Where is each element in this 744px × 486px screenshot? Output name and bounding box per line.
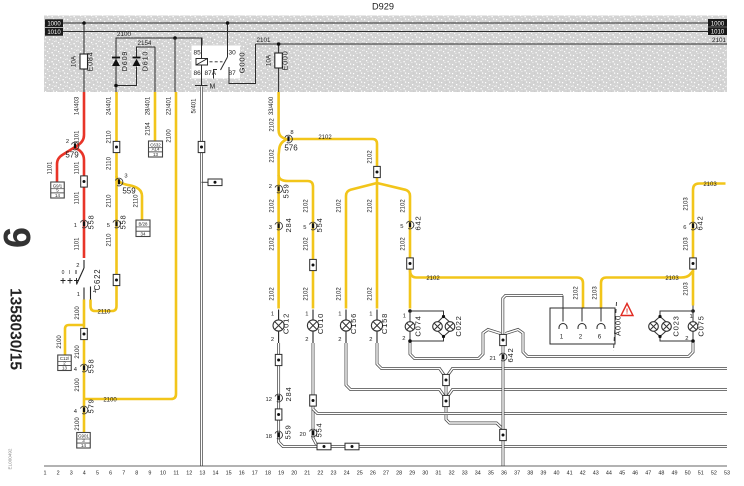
svg-text:2100: 2100	[117, 31, 132, 38]
splice 284 pin 3	[275, 222, 282, 230]
ruler baseline	[44, 465, 727, 467]
wire 642 ground drop	[502, 346, 505, 429]
svg-text:2102: 2102	[269, 199, 275, 213]
wire C012 ground chain	[279, 343, 727, 447]
wire 14/403 red from E084	[57, 92, 84, 182]
svg-text:2102: 2102	[368, 150, 374, 164]
svg-text:2100: 2100	[57, 335, 63, 349]
svg-text:34: 34	[475, 471, 481, 477]
svg-text:2103: 2103	[703, 182, 717, 188]
svg-text:1: 1	[271, 312, 274, 318]
connector on C012 ground lower	[275, 409, 282, 420]
svg-text:20: 20	[300, 432, 306, 438]
svg-text:30: 30	[229, 50, 237, 57]
splice 558 pin 5	[113, 220, 120, 228]
svg-text:2100: 2100	[75, 306, 81, 320]
splice 576	[285, 135, 292, 143]
svg-text:86: 86	[194, 70, 202, 77]
svg-text:642: 642	[414, 215, 423, 230]
svg-text:20: 20	[291, 471, 297, 477]
svg-text:28: 28	[396, 471, 402, 477]
svg-text:1010: 1010	[711, 30, 725, 36]
svg-text:9: 9	[148, 471, 151, 477]
splice 284 pin 12	[275, 394, 282, 402]
svg-text:2: 2	[269, 184, 272, 190]
svg-text:2110: 2110	[134, 194, 140, 208]
svg-text:2110: 2110	[107, 130, 113, 144]
svg-text:5: 5	[400, 224, 403, 230]
svg-text:EL000492: EL000492	[8, 448, 13, 469]
connector on 2103	[690, 258, 697, 269]
svg-text:2: 2	[57, 471, 60, 477]
svg-text:14: 14	[81, 443, 86, 448]
svg-text:2102: 2102	[401, 237, 407, 251]
svg-text:2154: 2154	[146, 122, 152, 136]
svg-text:1101: 1101	[48, 161, 54, 175]
svg-text:2102: 2102	[304, 237, 310, 251]
splice 579 pin 4	[80, 406, 87, 414]
connector on 2110	[113, 141, 120, 152]
wire 2100 from C622 pin 1	[83, 300, 86, 433]
svg-text:D610: D610	[141, 51, 150, 71]
node 1010 label left	[45, 28, 63, 36]
svg-text:2103: 2103	[684, 197, 690, 211]
svg-text:8: 8	[135, 471, 138, 477]
splice 554 pin 20	[309, 429, 316, 437]
splice 559 pin 2	[275, 185, 282, 193]
svg-text:C022: C022	[454, 315, 463, 336]
svg-text:45: 45	[619, 471, 625, 477]
wire 2102 branch from splice 576	[290, 139, 377, 183]
svg-text:C158: C158	[380, 313, 389, 334]
svg-text:M: M	[210, 84, 216, 91]
svg-text:579: 579	[65, 151, 79, 160]
svg-text:1358030/15: 1358030/15	[7, 288, 24, 370]
svg-text:2102: 2102	[368, 287, 374, 301]
svg-text:C622: C622	[93, 269, 102, 291]
svg-text:1: 1	[77, 292, 80, 298]
wire 2110 branch from splice 559	[117, 176, 143, 220]
svg-text:2102: 2102	[304, 287, 310, 301]
svg-text:17: 17	[252, 471, 258, 477]
svg-text:33/400: 33/400	[269, 96, 275, 115]
connector box from C622 pin1	[58, 355, 72, 371]
diode D609	[112, 57, 120, 59]
svg-text:49: 49	[672, 471, 678, 477]
svg-text:14/403: 14/403	[75, 96, 81, 115]
connector on 2102 C010 branch	[310, 259, 317, 270]
svg-text:52: 52	[711, 471, 717, 477]
svg-text:II: II	[75, 270, 78, 276]
svg-text:C012: C012	[282, 313, 291, 334]
junction box g1	[443, 374, 450, 385]
svg-text:2100: 2100	[103, 398, 117, 404]
svg-text:2102: 2102	[574, 286, 580, 300]
svg-text:1000: 1000	[47, 22, 61, 28]
svg-text:51: 51	[698, 471, 704, 477]
svg-text:4: 4	[83, 471, 86, 477]
wire 1101 branch right of splice 579	[75, 148, 85, 259]
svg-text:29: 29	[409, 471, 415, 477]
svg-text:2: 2	[369, 337, 372, 343]
svg-text:22/401: 22/401	[167, 96, 173, 115]
splice 642 pin 5	[406, 221, 413, 229]
svg-text:558: 558	[87, 358, 96, 373]
svg-text:36: 36	[501, 471, 507, 477]
svg-text:6: 6	[109, 471, 112, 477]
connector on 2102	[407, 258, 414, 269]
wire junction g2 to 642 drop	[446, 407, 503, 430]
svg-text:21: 21	[490, 356, 496, 362]
svg-text:558: 558	[119, 214, 128, 229]
svg-text:C156: C156	[349, 313, 358, 334]
svg-text:1: 1	[403, 314, 406, 320]
wire C010 ground chain	[313, 343, 318, 447]
bus 1000	[63, 22, 708, 24]
wire A000 pin 1 to splice 642	[503, 296, 563, 335]
lamp C158	[376, 310, 378, 321]
svg-text:B/28: B/28	[138, 221, 148, 226]
svg-text:2102: 2102	[401, 199, 407, 213]
svg-text:44: 44	[606, 471, 612, 477]
svg-text:22: 22	[317, 471, 323, 477]
svg-text:11: 11	[173, 471, 179, 477]
svg-text:24: 24	[344, 471, 350, 477]
svg-text:2110: 2110	[98, 310, 112, 316]
svg-text:10A: 10A	[266, 54, 273, 66]
node 2100 line in band	[116, 38, 202, 92]
svg-text:37: 37	[514, 471, 520, 477]
svg-text:3: 3	[269, 225, 272, 231]
svg-text:40: 40	[554, 471, 560, 477]
svg-text:559: 559	[284, 424, 293, 439]
svg-text:26: 26	[370, 471, 376, 477]
svg-text:14: 14	[213, 471, 219, 477]
wire 2102 long run to A000 pin 2	[410, 270, 583, 308]
svg-text:2110: 2110	[107, 194, 113, 208]
wire ground stub right upper	[448, 369, 727, 375]
svg-text:1010: 1010	[47, 30, 61, 36]
connector box from 559 branch	[136, 220, 150, 237]
svg-text:38: 38	[527, 471, 533, 477]
svg-text:559: 559	[281, 183, 290, 198]
splice 559 pin 3	[115, 178, 122, 186]
svg-text:C010: C010	[316, 313, 325, 334]
svg-text:2102: 2102	[269, 149, 275, 163]
connector box from 579 branch	[51, 182, 65, 198]
svg-text:6: 6	[683, 225, 686, 231]
svg-text:2102: 2102	[304, 199, 310, 213]
wire 5/401 ground from relay M	[200, 87, 203, 467]
svg-text:642: 642	[696, 215, 705, 230]
svg-text:558: 558	[87, 214, 96, 229]
splice 642 pin 6	[689, 222, 696, 230]
wire junction g1 to g2	[445, 386, 448, 396]
splice 558 pin 4	[80, 364, 87, 372]
lamp C156	[345, 310, 347, 321]
svg-text:2101: 2101	[257, 37, 272, 44]
svg-text:2100: 2100	[167, 129, 173, 143]
svg-text:2: 2	[66, 139, 69, 145]
fuse E000 feed	[278, 44, 280, 92]
svg-text:1101: 1101	[75, 237, 81, 251]
warning triangle	[621, 304, 633, 316]
connector on C010 ground	[310, 395, 317, 406]
svg-text:47: 47	[645, 471, 651, 477]
svg-text:31: 31	[435, 471, 441, 477]
svg-text:2102: 2102	[368, 199, 374, 213]
svg-text:2102: 2102	[269, 287, 275, 301]
svg-text:28/401: 28/401	[146, 96, 152, 115]
svg-text:554: 554	[315, 217, 324, 232]
svg-text:1101: 1101	[75, 161, 81, 175]
connector box bottom of 2100 chain	[77, 433, 91, 449]
svg-text:43: 43	[593, 471, 599, 477]
svg-text:2102: 2102	[318, 135, 332, 141]
switch C622	[83, 260, 85, 268]
svg-text:1000: 1000	[711, 21, 725, 27]
connector on 2102 branch to split	[374, 166, 381, 177]
svg-text:1: 1	[44, 471, 47, 477]
connector on 2100 chain	[81, 328, 88, 339]
svg-text:13: 13	[62, 365, 67, 370]
svg-text:A14: A14	[152, 147, 160, 152]
svg-text:E000: E000	[281, 51, 290, 71]
wire 642 ground drop lower	[502, 441, 505, 466]
svg-text:1101: 1101	[75, 130, 81, 144]
svg-text:C075: C075	[697, 315, 706, 336]
svg-text:2102: 2102	[337, 287, 343, 301]
wire 2102 from E000 33/400	[279, 92, 287, 309]
connector on 1101	[81, 176, 88, 187]
junction box on 642 drop	[500, 334, 507, 345]
svg-text:554: 554	[315, 422, 324, 437]
svg-text:3: 3	[124, 174, 127, 180]
svg-text:12: 12	[266, 397, 272, 403]
svg-text:2: 2	[338, 337, 341, 343]
connector on 2110 lower	[113, 274, 120, 285]
svg-text:48: 48	[658, 471, 664, 477]
wire 2103 right column	[692, 271, 695, 306]
svg-text:34: 34	[141, 231, 146, 236]
splice 558 pin 1	[80, 220, 87, 228]
node 1000 label right	[708, 19, 727, 27]
svg-text:25: 25	[357, 471, 363, 477]
svg-text:18: 18	[266, 434, 272, 440]
svg-text:1: 1	[690, 314, 693, 320]
svg-text:C023: C023	[672, 315, 681, 336]
svg-text:13: 13	[199, 471, 205, 477]
svg-text:87A: 87A	[205, 70, 217, 77]
svg-text:576: 576	[284, 144, 298, 153]
fuse E084	[80, 54, 88, 69]
splice 554 pin 5	[309, 222, 316, 230]
wire 2154 28/401	[154, 92, 157, 141]
relay blade and contacts	[221, 57, 228, 70]
svg-text:1: 1	[74, 223, 77, 229]
svg-text:33: 33	[462, 471, 468, 477]
control unit A000	[550, 308, 615, 344]
svg-text:E084: E084	[86, 52, 95, 72]
A000 pin 6	[600, 308, 602, 322]
node 1010 label right	[708, 27, 727, 35]
svg-text:10A: 10A	[71, 55, 78, 67]
svg-text:!: !	[626, 309, 628, 316]
svg-text:35: 35	[488, 471, 494, 477]
inline connectors on bottom ground run	[317, 443, 331, 450]
svg-text:41: 41	[567, 471, 573, 477]
svg-text:12: 12	[186, 471, 192, 477]
svg-text:42: 42	[580, 471, 586, 477]
svg-text:D929: D929	[372, 2, 394, 12]
svg-text:284: 284	[284, 386, 293, 401]
svg-text:7: 7	[122, 471, 125, 477]
junction box g2	[443, 395, 450, 406]
bus 2101	[256, 43, 728, 45]
svg-text:579: 579	[87, 398, 96, 413]
lamp C022	[433, 322, 443, 332]
wire C158 ground to junction g1	[377, 343, 444, 375]
lamp C023	[691, 309, 695, 313]
diode D610	[133, 57, 141, 59]
svg-text:284: 284	[284, 217, 293, 232]
A000 pin 1	[562, 308, 564, 322]
wire C156 ground to junction g2	[346, 343, 444, 396]
relay coil	[201, 38, 203, 59]
node 1000 label left	[45, 19, 63, 27]
svg-text:5: 5	[107, 223, 110, 229]
svg-text:5/401: 5/401	[192, 98, 198, 114]
svg-text:24/401: 24/401	[107, 96, 113, 115]
svg-text:1: 1	[338, 312, 341, 318]
wire 2103 from A000 pin 6 to right column	[601, 269, 693, 308]
svg-text:2: 2	[685, 336, 688, 342]
svg-text:18: 18	[265, 471, 271, 477]
svg-text:53: 53	[724, 471, 730, 477]
wire relay 87 to 2101	[229, 44, 256, 84]
bus 1010	[63, 31, 708, 33]
svg-text:I: I	[69, 270, 70, 276]
connector on C012 ground	[275, 354, 282, 365]
svg-text:2102: 2102	[337, 199, 343, 213]
splice 642 pin 21	[499, 353, 506, 361]
wire ground stub right lower	[448, 390, 727, 396]
splice 559 pin 18	[275, 431, 282, 439]
wire 2100 branch to connector box	[65, 325, 84, 355]
wire 2110 from diodes 24/401	[91, 92, 117, 311]
svg-text:2102: 2102	[426, 276, 440, 282]
svg-text:2: 2	[271, 337, 274, 343]
svg-text:2103: 2103	[684, 282, 690, 296]
node 2154 line in band	[137, 47, 156, 92]
svg-text:32: 32	[449, 471, 455, 477]
svg-text:16: 16	[239, 471, 245, 477]
svg-text:2: 2	[305, 337, 308, 343]
svg-text:2: 2	[402, 336, 405, 342]
svg-text:5: 5	[96, 471, 99, 477]
A000 pin 2	[581, 308, 583, 322]
svg-text:10: 10	[160, 471, 166, 477]
svg-text:2110: 2110	[107, 156, 113, 170]
svg-text:2103: 2103	[665, 276, 679, 282]
wire 2102 three-way split	[346, 183, 377, 309]
svg-text:0: 0	[62, 270, 65, 276]
svg-text:2101: 2101	[712, 37, 727, 44]
svg-text:21: 21	[304, 471, 310, 477]
svg-text:30: 30	[422, 471, 428, 477]
svg-text:2100: 2100	[75, 378, 81, 392]
lamp C010	[312, 310, 314, 321]
ground M	[195, 85, 208, 87]
svg-text:39: 39	[540, 471, 546, 477]
svg-text:A000: A000	[614, 315, 623, 336]
connector on 5/401	[198, 141, 205, 152]
fuse E000	[275, 53, 283, 68]
svg-text:9: 9	[0, 227, 37, 248]
svg-text:6: 6	[598, 334, 602, 341]
lamp C075	[688, 322, 698, 332]
svg-text:50: 50	[685, 471, 691, 477]
side connector on 5/401	[202, 181, 209, 183]
wire tap 22/401	[174, 38, 176, 92]
wire: E084 feed from bus 1000	[83, 23, 85, 92]
svg-text:19: 19	[278, 471, 284, 477]
svg-text:2: 2	[76, 263, 79, 269]
lamp C012	[278, 310, 280, 321]
svg-text:1: 1	[369, 312, 372, 318]
wire C074/C022 ground to splice 642	[410, 330, 501, 359]
svg-text:642: 642	[506, 347, 515, 362]
svg-text:2100: 2100	[75, 417, 81, 431]
svg-text:1: 1	[305, 312, 308, 318]
svg-text:2154: 2154	[138, 40, 153, 47]
svg-text:27: 27	[383, 471, 389, 477]
svg-text:85: 85	[194, 50, 202, 57]
wire diode merge	[116, 67, 137, 86]
wire C023/C075 ground to splice 642	[506, 330, 694, 357]
wire 2100 horizontal to 22/401 drop	[84, 92, 176, 399]
svg-text:87: 87	[229, 70, 237, 77]
svg-text:14: 14	[55, 193, 60, 198]
svg-text:2102: 2102	[269, 237, 275, 251]
svg-text:G000: G000	[238, 52, 247, 74]
svg-text:2110: 2110	[107, 233, 113, 247]
svg-text:2103: 2103	[593, 286, 599, 300]
wire 2102 branch from splice 559 to C010	[279, 175, 313, 309]
svg-text:8: 8	[290, 130, 293, 136]
svg-text:13: 13	[153, 152, 158, 157]
svg-text:2102: 2102	[269, 118, 275, 132]
connector box C632	[149, 141, 163, 157]
svg-text:2: 2	[579, 334, 583, 341]
svg-text:559: 559	[122, 187, 136, 196]
svg-text:2100: 2100	[75, 345, 81, 359]
wire ground run 413.5	[313, 409, 727, 414]
splice 579	[71, 142, 78, 150]
relay G000	[192, 46, 241, 79]
svg-text:1101: 1101	[75, 191, 81, 205]
svg-text:1: 1	[560, 334, 564, 341]
svg-text:5: 5	[303, 225, 306, 231]
svg-text:46: 46	[632, 471, 638, 477]
lamp C074	[408, 309, 412, 313]
svg-text:15: 15	[226, 471, 232, 477]
svg-text:3: 3	[70, 471, 73, 477]
svg-text:23: 23	[331, 471, 337, 477]
svg-text:D609: D609	[120, 51, 129, 71]
power distribution band	[44, 16, 727, 93]
svg-text:C074: C074	[414, 315, 423, 336]
